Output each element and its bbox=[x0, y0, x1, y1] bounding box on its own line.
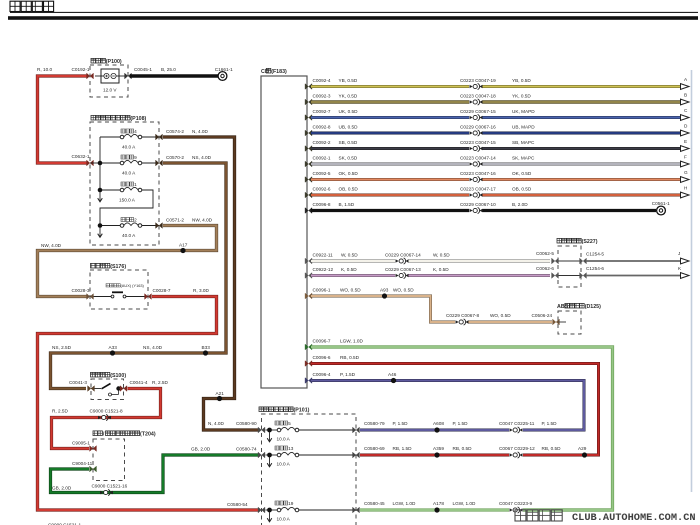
svg-text:A33: A33 bbox=[109, 345, 118, 350]
wire OB, 0.5D row H bbox=[311, 187, 681, 196]
svg-text:P, 1.5D: P, 1.5D bbox=[453, 421, 469, 426]
wire RB, 1.5D out of fuse 13 bbox=[360, 446, 561, 455]
ABS control unit D125 bbox=[557, 303, 601, 334]
header underline bbox=[10, 11, 698, 13]
svg-text:2: 2 bbox=[134, 218, 137, 223]
svg-text:UB, 0.5D: UB, 0.5D bbox=[339, 125, 359, 130]
svg-text:OB, 0.5D: OB, 0.5D bbox=[339, 187, 359, 192]
svg-text:C1661-1: C1661-1 bbox=[215, 67, 233, 72]
arrow C bbox=[681, 108, 690, 120]
fuse 2 40.0 A bbox=[120, 218, 142, 239]
svg-text:UB, MAPD: UB, MAPD bbox=[512, 125, 535, 130]
svg-text:YB, 0.5D: YB, 0.5D bbox=[512, 78, 531, 83]
svg-text:C0041-4: C0041-4 bbox=[130, 380, 148, 385]
header thick bar bbox=[8, 16, 698, 20]
svg-text:C0047 C0223-9: C0047 C0223-9 bbox=[499, 501, 532, 506]
svg-text:CD: CD bbox=[261, 69, 269, 75]
svg-text:(D125): (D125) bbox=[585, 304, 601, 310]
svg-text:(S100): (S100) bbox=[110, 373, 126, 379]
connector C0223 C0047-17 row H bbox=[470, 192, 483, 198]
engine fuse box P108 bbox=[90, 115, 159, 245]
svg-text:C1254-5: C1254-5 bbox=[586, 252, 604, 257]
svg-text:W, 0.5D: W, 0.5D bbox=[433, 253, 450, 258]
svg-text:UK, MAPD: UK, MAPD bbox=[512, 109, 535, 114]
svg-text:12.0 V: 12.0 V bbox=[103, 88, 117, 93]
svg-text:NW, 4.0D: NW, 4.0D bbox=[41, 243, 62, 248]
pin C0570-2 bbox=[156, 155, 212, 166]
pin C0580-79 bbox=[353, 421, 409, 433]
svg-text:9: 9 bbox=[134, 155, 137, 160]
label C0580-54 bbox=[227, 502, 248, 507]
svg-text:CLUB.AUTOHOME.COM.CN: CLUB.AUTOHOME.COM.CN bbox=[572, 512, 696, 524]
svg-text:A178: A178 bbox=[433, 501, 444, 506]
CD row D: pin C0092-8 bbox=[305, 125, 358, 136]
pin C0041-4 bbox=[120, 380, 168, 391]
svg-text:N, 4.0D: N, 4.0D bbox=[192, 129, 209, 134]
svg-text:(P101): (P101) bbox=[294, 408, 310, 414]
svg-text:C0067 C0229-12: C0067 C0229-12 bbox=[499, 446, 535, 451]
connector C0223 C0047-15 row E bbox=[470, 145, 483, 151]
CD row G: pin C0092-5 bbox=[305, 171, 358, 182]
fuse 13 10.0 A bbox=[266, 446, 357, 467]
wire to arrow K bbox=[586, 275, 681, 277]
CD pin C0096-6 bbox=[305, 355, 360, 366]
wire P loop bbox=[311, 372, 584, 430]
pin C0580-45 bbox=[353, 501, 416, 513]
svg-text:C0092-4: C0092-4 bbox=[313, 78, 331, 83]
svg-text:SK, 0.5D: SK, 0.5D bbox=[339, 156, 358, 161]
splice A608 bbox=[434, 427, 439, 432]
svg-text:C0229 C0067-14: C0229 C0067-14 bbox=[385, 253, 421, 258]
clipped label C9000 C1521-1 bbox=[48, 523, 81, 525]
svg-text:C0062-6: C0062-6 bbox=[536, 266, 554, 271]
arrow D bbox=[681, 124, 690, 136]
svg-text:C0092-1: C0092-1 bbox=[313, 156, 331, 161]
svg-text:G: G bbox=[684, 170, 688, 175]
P101 pin C0580-90 bbox=[258, 427, 265, 433]
svg-text:B: B bbox=[684, 93, 687, 98]
fuse 9 40.0 A bbox=[120, 155, 142, 176]
pin C0571-2 bbox=[156, 218, 213, 229]
arrow B bbox=[681, 93, 690, 105]
pin C0045-1 bbox=[125, 67, 153, 79]
svg-text:WO, 0.5D: WO, 0.5D bbox=[340, 288, 361, 293]
svg-text:C9004-11: C9004-11 bbox=[72, 461, 93, 466]
rotary coupler S227 bbox=[557, 238, 598, 287]
svg-text:13: 13 bbox=[288, 446, 294, 451]
svg-text:C0096-6: C0096-6 bbox=[313, 355, 331, 360]
junction dot P108 bus fuse1 bbox=[98, 188, 103, 193]
CD row F: pin C0092-1 bbox=[305, 156, 358, 167]
splice B33 bbox=[202, 345, 211, 356]
svg-text:(F183): (F183) bbox=[271, 69, 287, 75]
svg-text:NW, 4.0D: NW, 4.0D bbox=[192, 218, 213, 223]
svg-text:C0574-2: C0574-2 bbox=[166, 129, 184, 134]
arrow G bbox=[681, 170, 690, 182]
svg-text:WO, 0.5D: WO, 0.5D bbox=[490, 313, 511, 318]
connector C0229 C0067-13 bbox=[396, 272, 409, 278]
svg-text:OB, 0.5D: OB, 0.5D bbox=[512, 187, 532, 192]
svg-text:A46: A46 bbox=[388, 372, 397, 377]
connector C0229 C0067-8 bbox=[456, 319, 469, 325]
svg-text:A29: A29 bbox=[578, 446, 587, 451]
wire UK, 0.5D row C bbox=[311, 109, 681, 118]
svg-text:40.0 A: 40.0 A bbox=[122, 171, 136, 176]
combination switch S100 bbox=[91, 372, 127, 399]
svg-text:A21: A21 bbox=[216, 391, 225, 396]
svg-text:(P108): (P108) bbox=[130, 116, 146, 122]
svg-text:C0571-2: C0571-2 bbox=[166, 218, 184, 223]
svg-text:C0092-2: C0092-2 bbox=[313, 140, 331, 145]
svg-text:E: E bbox=[684, 139, 687, 144]
svg-text:C0580-54: C0580-54 bbox=[227, 502, 248, 507]
svg-text:1: 1 bbox=[134, 182, 137, 187]
svg-text:C9000 C1521-16: C9000 C1521-16 bbox=[92, 484, 128, 489]
svg-text:RB, 1.5D: RB, 1.5D bbox=[393, 446, 413, 451]
svg-text:C0229 C0067-16: C0229 C0067-16 bbox=[460, 125, 496, 130]
svg-text:C0223 C0047-14: C0223 C0047-14 bbox=[460, 156, 496, 161]
splice A359 bbox=[434, 452, 439, 457]
wire GB 2.0D to P101 bbox=[51, 447, 259, 493]
wire R 10.0 battery feed bbox=[37, 67, 88, 163]
svg-text:K, 0.5D: K, 0.5D bbox=[341, 267, 357, 272]
svg-text:C0223 C0047-19: C0223 C0047-19 bbox=[460, 78, 496, 83]
watermark 汽车之家 CLUB.AUTOHOME.COM.CN bbox=[515, 510, 696, 524]
P101 pin C0580-54 bbox=[258, 507, 265, 513]
wire K 0.5D row K bbox=[311, 267, 550, 276]
CD pin C0096-4 bbox=[305, 372, 356, 383]
svg-text:YK, 0.5D: YK, 0.5D bbox=[512, 94, 531, 99]
svg-text:19: 19 bbox=[288, 501, 294, 506]
svg-text:C0223 C0047-15: C0223 C0047-15 bbox=[460, 140, 496, 145]
wire NW to S176 bbox=[38, 226, 217, 297]
svg-text:C0229 C0067-8: C0229 C0067-8 bbox=[446, 313, 479, 318]
arrow E bbox=[681, 139, 690, 151]
svg-text:NS, 2.5D: NS, 2.5D bbox=[52, 345, 72, 350]
P101 bus dot row 19 bbox=[267, 508, 272, 522]
svg-text:R, 3.0D: R, 3.0D bbox=[193, 288, 210, 293]
svg-text:10.0 A: 10.0 A bbox=[277, 437, 291, 442]
svg-text:P, 1.5D: P, 1.5D bbox=[340, 372, 356, 377]
svg-text:C0506-24: C0506-24 bbox=[532, 313, 553, 318]
svg-text:C0922-12: C0922-12 bbox=[313, 267, 334, 272]
junction dot P108 bus fuse2 bbox=[98, 223, 103, 228]
title 音响系统 bbox=[10, 1, 54, 11]
pin C0580-69 bbox=[353, 446, 413, 458]
pin C9005-1 bbox=[72, 441, 96, 452]
svg-text:R, 2.5D: R, 2.5D bbox=[52, 409, 69, 414]
ignition switch S176 bbox=[90, 263, 148, 309]
wire SB, 0.5D row E bbox=[311, 140, 681, 149]
connector C0047 C0225-11 bbox=[510, 427, 523, 433]
connector C0229 C0067-15 row C bbox=[470, 114, 483, 120]
sun/rain controller T204 bbox=[93, 431, 156, 481]
svg-text:C0223 C0047-17: C0223 C0047-17 bbox=[460, 187, 496, 192]
P108 internal bus bbox=[90, 137, 159, 226]
svg-text:LGW, 1.0D: LGW, 1.0D bbox=[340, 339, 364, 344]
connector C0047 C0223-9 bbox=[510, 507, 523, 513]
svg-text:10.0 A: 10.0 A bbox=[277, 462, 291, 467]
wire YB, 0.5D row A bbox=[311, 78, 681, 87]
CD row C: pin C0092-7 bbox=[305, 109, 358, 120]
svg-text:C0096-1: C0096-1 bbox=[313, 288, 331, 293]
CD unit F183 bbox=[261, 68, 307, 388]
arrow F bbox=[681, 155, 690, 167]
svg-text:C0092-3: C0092-3 bbox=[313, 94, 331, 99]
svg-text:YB, 0.5D: YB, 0.5D bbox=[339, 78, 358, 83]
svg-text:RB, 0.5D: RB, 0.5D bbox=[340, 355, 360, 360]
splice A33 bbox=[109, 345, 118, 356]
pin C0574-2 bbox=[156, 129, 209, 140]
splice A21 bbox=[216, 391, 225, 401]
svg-text:F: F bbox=[684, 155, 687, 160]
splice A46 bbox=[391, 378, 396, 383]
wire R 2.5D to T204 bbox=[52, 389, 161, 449]
wire LGW, 1.0D out of fuse 19 bbox=[360, 501, 532, 510]
svg-text:C9005-1: C9005-1 bbox=[72, 441, 90, 446]
svg-text:C0028-3: C0028-3 bbox=[72, 288, 90, 293]
svg-text:B, 25.0: B, 25.0 bbox=[161, 67, 176, 72]
svg-text:R, 2.5D: R, 2.5D bbox=[152, 380, 169, 385]
battery P100 bbox=[90, 58, 128, 97]
wire WO 0.5D bbox=[311, 288, 552, 323]
pin C0028-3 bbox=[72, 288, 94, 299]
svg-text:C0092-7: C0092-7 bbox=[313, 109, 331, 114]
CD pin C0096-1 bbox=[305, 288, 361, 299]
svg-text:A608: A608 bbox=[433, 421, 444, 426]
right page edge line bbox=[691, 70, 693, 492]
svg-text:(T204): (T204) bbox=[140, 432, 156, 438]
ring terminal C0561-1 bbox=[652, 201, 670, 215]
svg-text:C0229 C0067-15: C0229 C0067-15 bbox=[460, 109, 496, 114]
connector C0223 C0047-18 row B bbox=[470, 99, 483, 105]
svg-text:C1254-6: C1254-6 bbox=[586, 266, 604, 271]
CD pin C0922-12 bbox=[305, 267, 357, 278]
svg-text:C0092-8: C0092-8 bbox=[313, 125, 331, 130]
svg-text:C0580-45: C0580-45 bbox=[364, 501, 385, 506]
P101 bus dot row 13 bbox=[267, 453, 272, 467]
ring terminal C1661-1 bbox=[215, 67, 233, 80]
svg-text:C0223 C0047-16: C0223 C0047-16 bbox=[460, 171, 496, 176]
svg-text:A93: A93 bbox=[380, 288, 389, 293]
svg-text:C0041-3: C0041-3 bbox=[69, 380, 87, 385]
arrow A bbox=[681, 77, 690, 89]
CD row B: pin C0092-3 bbox=[305, 94, 358, 105]
pin C9004-11 bbox=[72, 461, 96, 472]
wire to arrow J bbox=[586, 260, 681, 262]
CD row H: pin C0092-6 bbox=[305, 187, 358, 198]
CD pin C0096-7 bbox=[305, 339, 363, 350]
wire UB, 0.5D row D bbox=[311, 125, 681, 134]
svg-text:UK, 0.5D: UK, 0.5D bbox=[339, 109, 359, 114]
svg-text:SB, MAPC: SB, MAPC bbox=[512, 140, 535, 145]
wire LGW 1.0D loop bbox=[311, 347, 613, 510]
svg-text:C0047 C0225-11: C0047 C0225-11 bbox=[499, 421, 535, 426]
connector C0223 C0047-14 row F bbox=[470, 161, 483, 167]
svg-text:LGW, 1.0D: LGW, 1.0D bbox=[453, 501, 477, 506]
splice A93 bbox=[382, 293, 387, 298]
svg-text:B, 1.5D: B, 1.5D bbox=[339, 202, 355, 207]
pin C1254-6 bbox=[580, 266, 605, 278]
svg-text:A359: A359 bbox=[433, 446, 444, 451]
svg-text:40.0 A: 40.0 A bbox=[122, 233, 136, 238]
splice A178 bbox=[434, 507, 439, 512]
svg-text:C0045-1: C0045-1 bbox=[134, 67, 152, 72]
svg-text:OK, 0.5D: OK, 0.5D bbox=[339, 171, 359, 176]
connector C0229 C0067-14 bbox=[396, 258, 409, 264]
svg-text:A17: A17 bbox=[179, 243, 188, 248]
pin C0062-5 bbox=[536, 251, 558, 264]
wire OK, 0.5D row G bbox=[311, 171, 681, 180]
fuse 1 150.0 A bbox=[119, 182, 142, 203]
svg-text:40.0 A: 40.0 A bbox=[122, 145, 136, 150]
connector C0229 C0067-10 bbox=[470, 207, 483, 213]
wire P, 1.5D out of fuse 5 bbox=[360, 421, 557, 430]
wire B 2.0D bbox=[311, 202, 656, 211]
svg-text:GB, 2.0D: GB, 2.0D bbox=[191, 447, 211, 452]
svg-text:C0580-74: C0580-74 bbox=[236, 447, 257, 452]
svg-text:GB, 2.0D: GB, 2.0D bbox=[52, 486, 72, 491]
svg-text:NS, 4.0D: NS, 4.0D bbox=[192, 155, 212, 160]
svg-text:C0580-69: C0580-69 bbox=[364, 446, 385, 451]
svg-text:C0096-8: C0096-8 bbox=[313, 202, 331, 207]
connector C0223 C0047-19 row A bbox=[470, 83, 483, 89]
arrow J bbox=[678, 251, 689, 264]
svg-text:C0580-79: C0580-79 bbox=[364, 421, 385, 426]
junction dot P108 bus fuse9 bbox=[98, 161, 103, 166]
svg-text:SK, MAPC: SK, MAPC bbox=[512, 156, 535, 161]
svg-text:(S176): (S176) bbox=[110, 264, 126, 270]
svg-text:C0192-1: C0192-1 bbox=[72, 67, 90, 72]
fuse 4 40.0 A bbox=[120, 129, 142, 150]
pin C0041-3 bbox=[69, 380, 94, 391]
svg-text:RB, 0.5D: RB, 0.5D bbox=[542, 446, 562, 451]
svg-text:C0632-1: C0632-1 bbox=[72, 154, 90, 159]
pin C0062-6 bbox=[536, 266, 558, 278]
wire B 25.0 bbox=[130, 67, 218, 76]
svg-text:C0229 C0067-13: C0229 C0067-13 bbox=[385, 267, 421, 272]
svg-text:YK, 0.5D: YK, 0.5D bbox=[339, 94, 358, 99]
pin C0028-7 bbox=[145, 288, 210, 299]
svg-text:K, 0.5D: K, 0.5D bbox=[433, 267, 449, 272]
svg-text:RB, 0.5D: RB, 0.5D bbox=[453, 446, 473, 451]
svg-text:C0092-6: C0092-6 bbox=[313, 187, 331, 192]
arrow K bbox=[678, 266, 689, 278]
svg-text:P, 1.5D: P, 1.5D bbox=[393, 421, 409, 426]
wire N 4.0D to A21 and P101 bbox=[163, 137, 258, 430]
svg-text:C0561-1: C0561-1 bbox=[652, 201, 670, 206]
wire R 3.0D bbox=[38, 297, 259, 511]
connector C0067 C0229-12 bbox=[510, 452, 523, 458]
pin C0632-1 bbox=[72, 154, 94, 166]
CD pin C0922-11 bbox=[305, 253, 358, 264]
svg-text:(P100): (P100) bbox=[106, 59, 122, 65]
svg-text:B, 2.0D: B, 2.0D bbox=[512, 202, 528, 207]
svg-text:(AUX) (Y163): (AUX) (Y163) bbox=[121, 283, 145, 288]
pin C1254-5 bbox=[580, 252, 605, 264]
svg-text:(S227): (S227) bbox=[582, 239, 598, 245]
svg-text:C0580-90: C0580-90 bbox=[236, 421, 257, 426]
fuse 19 10.0 A bbox=[266, 501, 357, 522]
wire W 0.5D row J bbox=[311, 253, 550, 262]
svg-text:C0096-7: C0096-7 bbox=[313, 339, 331, 344]
passenger fuse box P101 bbox=[259, 407, 356, 525]
svg-text:C0922-11: C0922-11 bbox=[313, 253, 334, 258]
svg-text:C0062-5: C0062-5 bbox=[536, 251, 554, 256]
bus continuation arrow 2 bbox=[98, 228, 103, 238]
pin C0506-24 bbox=[532, 313, 560, 325]
svg-text:C0092-5: C0092-5 bbox=[313, 171, 331, 176]
svg-text:10.0 A: 10.0 A bbox=[277, 517, 291, 522]
CD row A: pin C0092-4 bbox=[305, 78, 358, 89]
svg-text:N, 4.0D: N, 4.0D bbox=[208, 421, 225, 426]
splice A17 bbox=[179, 243, 188, 254]
connector C9000 C1521-8 bbox=[90, 409, 123, 421]
svg-text:NS, 4.0D: NS, 4.0D bbox=[143, 345, 163, 350]
svg-text:J: J bbox=[678, 251, 680, 256]
svg-text:P, 1.5D: P, 1.5D bbox=[542, 421, 558, 426]
svg-text:5: 5 bbox=[288, 421, 291, 426]
wire YK, 0.5D row B bbox=[311, 94, 681, 103]
P101 bus dot row 5 bbox=[267, 428, 272, 442]
svg-text:C0570-2: C0570-2 bbox=[166, 155, 184, 160]
svg-text:C0096-4: C0096-4 bbox=[313, 372, 331, 377]
connector C0223 C0047-16 row G bbox=[470, 176, 483, 182]
wire SK, 0.5D row F bbox=[311, 156, 681, 165]
svg-text:C0229 C0067-10: C0229 C0067-10 bbox=[460, 202, 496, 207]
svg-text:OK, 0.5D: OK, 0.5D bbox=[512, 171, 532, 176]
CD row ground: pin C0096-8 bbox=[305, 202, 355, 213]
connector C9000 C1521-16 bbox=[92, 484, 128, 496]
CD row E: pin C0092-2 bbox=[305, 140, 358, 151]
svg-text:4: 4 bbox=[134, 129, 137, 134]
svg-text:W, 0.5D: W, 0.5D bbox=[341, 253, 358, 258]
svg-text:B33: B33 bbox=[202, 345, 211, 350]
svg-text:C0223 C0047-18: C0223 C0047-18 bbox=[460, 94, 496, 99]
svg-text:LGW, 1.0D: LGW, 1.0D bbox=[393, 501, 417, 506]
svg-text:C9000 C1521-8: C9000 C1521-8 bbox=[90, 409, 123, 414]
fuse 5 10.0 A bbox=[266, 421, 357, 442]
svg-text:H: H bbox=[684, 186, 687, 191]
svg-text:R, 10.0: R, 10.0 bbox=[37, 67, 53, 72]
svg-text:C0028-7: C0028-7 bbox=[153, 288, 171, 293]
splice A29 bbox=[578, 446, 587, 458]
svg-text:SB, 0.5D: SB, 0.5D bbox=[339, 140, 358, 145]
svg-text:150.0 A: 150.0 A bbox=[119, 198, 136, 203]
arrow H bbox=[681, 186, 690, 198]
wire NS to S100 bbox=[51, 163, 227, 389]
connector C0229 C0067-16 row D bbox=[470, 130, 483, 136]
P101 pin C0580-74 bbox=[258, 452, 265, 458]
pin C0192-1 bbox=[72, 67, 94, 79]
wire RB loop bbox=[311, 364, 599, 456]
bus continuation arrow 1 bbox=[98, 192, 103, 202]
svg-text:WO, 0.5D: WO, 0.5D bbox=[393, 288, 414, 293]
